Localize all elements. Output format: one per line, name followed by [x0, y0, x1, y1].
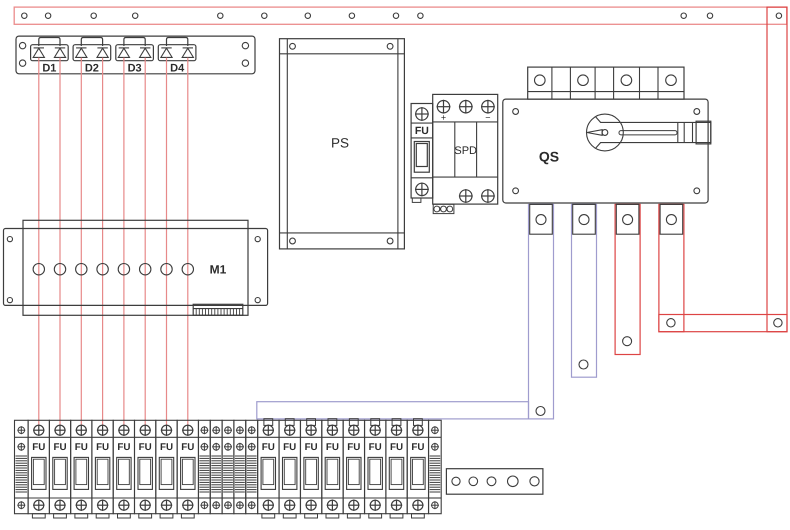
- SPD terminal screws top: [437, 100, 495, 114]
- fuse terminal FU #8: [177, 420, 198, 518]
- terminal block mid #2: [210, 420, 222, 513]
- FU #8 din foot: [181, 514, 194, 518]
- fuse terminal FU #10: [279, 419, 300, 518]
- wire string 1 (diode to fuse): [38, 58, 40, 426]
- FU #9 din foot: [262, 514, 275, 518]
- ground busbar PE: [446, 469, 543, 495]
- M1 plate holes: [7, 237, 260, 303]
- diode module D1 cover bracket: [39, 38, 60, 47]
- svg-text:FU: FU: [283, 442, 296, 453]
- svg-text:SPD: SPD: [454, 145, 477, 157]
- FU #5 din foot: [118, 514, 131, 518]
- blue output bus to fuse group: [257, 402, 529, 419]
- horizontal red bar to right bus: [659, 315, 787, 332]
- FU #2 din foot: [54, 514, 67, 518]
- svg-text:FU: FU: [96, 442, 109, 453]
- FU #14 din foot: [369, 514, 382, 518]
- svg-text:FU: FU: [305, 442, 318, 453]
- diode module D2 cover bracket: [81, 38, 102, 47]
- svg-text:FU: FU: [262, 442, 275, 453]
- monitor M1 mounting plate: [4, 229, 268, 306]
- bus bar vertical right (+): [767, 7, 787, 332]
- FU #16 bus stub: [414, 419, 423, 426]
- svg-text:FU: FU: [347, 442, 360, 453]
- monitor M1 body: [23, 220, 248, 315]
- diode module D3 body: [116, 45, 154, 61]
- wire string 6 (diode to fuse): [144, 58, 146, 426]
- switch QS body: [503, 99, 708, 203]
- diode module D4 body: [158, 45, 196, 61]
- wire string 5 (diode to fuse): [123, 58, 125, 426]
- terminal block mid #5: [246, 420, 258, 513]
- diode module D4 cover bracket: [167, 38, 188, 47]
- fuse terminal FU #13: [343, 419, 364, 518]
- FU #14 bus stub: [371, 419, 380, 426]
- svg-text:D2: D2: [85, 62, 99, 74]
- svg-text:FU: FU: [181, 442, 194, 453]
- QS bottom terminal 2: [573, 204, 596, 234]
- FU #3 din foot: [75, 514, 88, 518]
- diode module D3 cover bracket: [124, 38, 145, 47]
- svg-text:+: +: [441, 112, 446, 122]
- M1 connector: [193, 304, 243, 315]
- FU #10 din foot: [283, 514, 296, 518]
- bar holes: [667, 319, 675, 327]
- FU #11 din foot: [305, 514, 318, 518]
- terminal block mid #1: [198, 420, 210, 513]
- wire string 2 (diode to fuse): [59, 58, 61, 426]
- diode in D2 at x=103: [97, 48, 108, 58]
- svg-text:FU: FU: [415, 125, 429, 137]
- svg-text:FU: FU: [75, 442, 88, 453]
- FU din clip: [412, 198, 421, 202]
- QS output bar 1 (blue): [529, 204, 554, 419]
- QS rotary handle: [587, 114, 711, 151]
- svg-text:M1: M1: [210, 262, 227, 276]
- fuse terminal FU #6: [135, 420, 156, 518]
- wire string 7 (diode to fuse): [166, 58, 168, 426]
- PS inner lines: [280, 39, 405, 249]
- fuse terminal FU #2: [49, 420, 70, 518]
- FU #13 bus stub: [349, 419, 358, 426]
- diode board plate: [16, 36, 255, 74]
- svg-text:FU: FU: [326, 442, 339, 453]
- wire string 4 (diode to fuse): [102, 58, 104, 426]
- diode in D3 at x=145: [140, 48, 151, 58]
- hole: [776, 13, 781, 18]
- FU #12 din foot: [326, 514, 339, 518]
- end terminal right: [429, 420, 442, 513]
- diode in D1 at x=60: [54, 48, 65, 58]
- QS handle end cap: [696, 121, 711, 144]
- diode in D3 at x=124: [118, 48, 129, 58]
- fuse terminal FU #5: [113, 420, 134, 518]
- QS output bar 3 (red): [615, 204, 640, 354]
- svg-text:FU: FU: [390, 442, 403, 453]
- PE holes: [452, 476, 539, 487]
- diode in D1 at x=39: [33, 48, 44, 58]
- svg-text:FU: FU: [160, 442, 173, 453]
- fuse terminal FU #11: [301, 419, 322, 518]
- svg-text:D4: D4: [170, 62, 185, 74]
- svg-text:PS: PS: [331, 135, 349, 150]
- diode module D1 body: [31, 45, 69, 61]
- svg-text:FU: FU: [411, 442, 424, 453]
- svg-text:D3: D3: [128, 62, 142, 74]
- FU #15 bus stub: [392, 419, 401, 426]
- svg-text:QS: QS: [539, 149, 559, 165]
- FU #1 din foot: [32, 514, 45, 518]
- FU bottom screw: [415, 183, 429, 197]
- diode module D2 body: [73, 45, 111, 61]
- svg-text:FU: FU: [32, 442, 45, 453]
- svg-text:−: −: [485, 113, 490, 123]
- FU top screw: [415, 107, 429, 121]
- fuse terminal FU #15: [386, 419, 407, 518]
- svg-text:FU: FU: [117, 442, 130, 453]
- QS output bar 4 (red): [659, 204, 684, 331]
- FU #10 bus stub: [285, 419, 294, 426]
- FU #13 din foot: [347, 514, 360, 518]
- svg-text:D1: D1: [42, 62, 56, 74]
- SPD pe terminal: [433, 204, 454, 213]
- diode board holes: [19, 42, 248, 66]
- FU #9 bus stub: [264, 419, 273, 426]
- QS top terminal holes: [535, 75, 677, 86]
- power supply PS box: [280, 39, 405, 249]
- QS bottom terminal 1: [530, 204, 553, 234]
- FU fuse body: [414, 142, 429, 173]
- FU #16 din foot: [412, 514, 425, 518]
- terminal block mid #3: [222, 420, 234, 513]
- bar 1 end hole: [536, 407, 545, 416]
- QS bottom terminal 4: [660, 204, 683, 234]
- wire string 8 (diode to fuse): [187, 58, 189, 426]
- FU #7 din foot: [160, 514, 173, 518]
- FU #4 din foot: [96, 514, 109, 518]
- QS mounting holes: [513, 109, 700, 194]
- diode in D2 at x=81: [76, 48, 87, 58]
- fuse terminal FU #12: [322, 419, 343, 518]
- diode in D4 at x=166: [161, 48, 172, 58]
- FU #11 bus stub: [307, 419, 316, 426]
- fuse terminal FU #4: [92, 420, 113, 518]
- fuse terminal FU #1: [28, 420, 49, 518]
- diode in D4 at x=188: [182, 48, 193, 58]
- bar 3 end hole: [623, 337, 632, 346]
- fuse terminal FU #3: [71, 420, 92, 518]
- QS output bar 2 (blue): [572, 204, 597, 377]
- PS mounting holes: [290, 43, 393, 244]
- wire string 3 (diode to fuse): [80, 58, 82, 426]
- M1 CT holes: [33, 264, 193, 275]
- fuse holder FU (spd fuse): [411, 104, 433, 199]
- FU #6 din foot: [139, 514, 152, 518]
- svg-text:FU: FU: [369, 442, 382, 453]
- QS bottom terminal 3: [616, 204, 639, 234]
- bar 2 end hole: [579, 360, 588, 369]
- busbar + (top horizontal red bus): [14, 7, 787, 24]
- surge protector SPD body: [433, 94, 498, 204]
- end terminal left: [15, 420, 29, 513]
- SPD terminal screws bottom: [459, 189, 495, 203]
- svg-text:FU: FU: [53, 442, 66, 453]
- FU #15 din foot: [390, 514, 403, 518]
- fuse terminal FU #7: [156, 420, 177, 518]
- busbar mounting holes: [22, 13, 713, 18]
- svg-text:FU: FU: [139, 442, 152, 453]
- fuse terminal FU #16: [407, 419, 428, 518]
- FU #12 bus stub: [328, 419, 337, 426]
- fuse terminal FU #14: [365, 419, 386, 518]
- terminal block mid #4: [234, 420, 246, 513]
- disconnect switch QS top terminal strip: [528, 67, 684, 99]
- fuse terminal FU #9: [258, 419, 279, 518]
